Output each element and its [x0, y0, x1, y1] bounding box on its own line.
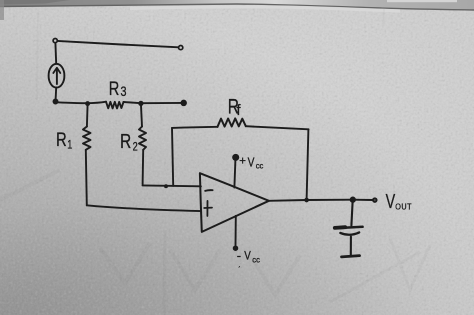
svg-text:-: -	[237, 248, 241, 263]
svg-text:R: R	[109, 77, 120, 100]
svg-text:R: R	[120, 130, 131, 152]
svg-text:cc: cc	[256, 161, 264, 170]
svg-text:2: 2	[133, 142, 138, 154]
svg-text:+: +	[239, 155, 246, 167]
svg-text:V: V	[248, 157, 255, 170]
svg-text:V: V	[244, 250, 251, 263]
svg-text:V: V	[386, 190, 396, 213]
svg-text:cc: cc	[252, 255, 260, 264]
svg-text:1: 1	[67, 140, 72, 152]
svg-text:OUT: OUT	[395, 202, 412, 211]
svg-text:3: 3	[121, 84, 127, 99]
svg-text:R: R	[56, 128, 67, 151]
